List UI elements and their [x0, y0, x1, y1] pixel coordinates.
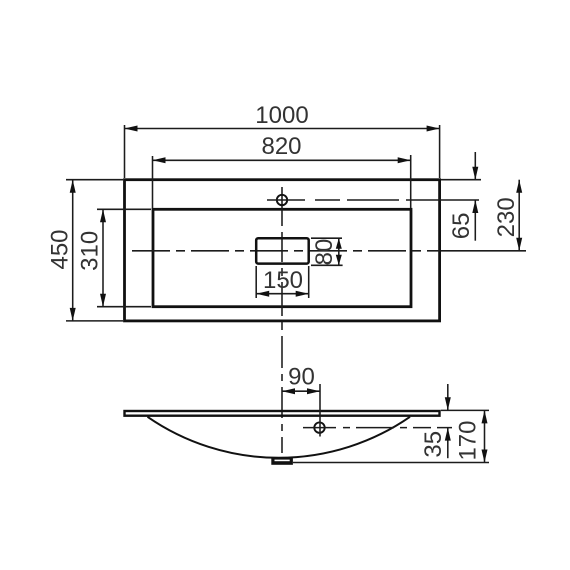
svg-text:150: 150	[263, 267, 303, 294]
dimension 80	[311, 238, 343, 265]
dimension 820	[153, 133, 411, 208]
basin bowl curve (side view)	[148, 417, 411, 458]
svg-text:170: 170	[454, 420, 481, 460]
svg-text:310: 310	[76, 231, 103, 271]
faucet hole	[267, 195, 479, 205]
svg-text:820: 820	[261, 133, 301, 160]
dimension 150	[256, 266, 309, 298]
svg-text:65: 65	[448, 213, 475, 240]
horizontal centerline (top view)	[132, 250, 440, 252]
dimension 450	[47, 180, 123, 321]
washbasin outer rim (top view)	[125, 180, 440, 321]
svg-text:35: 35	[420, 431, 447, 458]
svg-text:450: 450	[47, 229, 74, 269]
svg-text:1000: 1000	[255, 102, 308, 129]
dimension 310	[76, 209, 151, 306]
side view centerline horizontal	[303, 427, 452, 429]
dimension 90	[282, 364, 320, 437]
vertical centerline	[281, 187, 283, 453]
svg-text:80: 80	[311, 239, 338, 266]
basin inner bowl outline (top view)	[153, 209, 411, 306]
overflow hole (side view)	[314, 422, 324, 432]
svg-text:230: 230	[493, 197, 520, 237]
drain trap (side view)	[271, 458, 293, 465]
drain outline (top view)	[256, 238, 309, 263]
dimension 1000	[125, 102, 440, 178]
dimension 35	[420, 384, 451, 458]
dimension 65	[441, 152, 481, 241]
svg-text:90: 90	[288, 364, 315, 391]
dimension 230	[441, 180, 526, 251]
dimension 170	[293, 410, 489, 462]
countertop slab (side view)	[125, 411, 440, 416]
